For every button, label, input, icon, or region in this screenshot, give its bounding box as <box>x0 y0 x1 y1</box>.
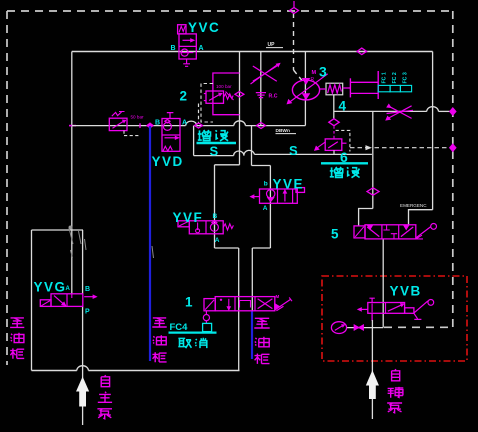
comp2 pilot loop <box>213 73 240 115</box>
wire left rect right edge upper (to YVG B) <box>82 230 84 294</box>
comp2 port ticks <box>204 94 206 101</box>
cylinder body <box>350 82 378 93</box>
svg-text:A: A <box>215 237 220 244</box>
svg-text:2: 2 <box>180 89 188 104</box>
throttle X2 cross <box>387 106 414 119</box>
wire YVG top feed inner <box>71 230 73 294</box>
wire aux pump riser <box>371 320 373 419</box>
valve1 dividers <box>235 297 255 311</box>
wire right bus vertical <box>432 52 434 210</box>
valve YVG pilot box <box>40 300 51 307</box>
wire YVG P drop <box>82 306 84 370</box>
svg-text:YVE: YVE <box>273 176 305 191</box>
valve6 adjust arrow <box>315 142 325 149</box>
svg-text:50 bar: 50 bar <box>131 114 144 119</box>
pump3 top flow triangle <box>303 79 309 84</box>
svg-text:S: S <box>210 144 219 159</box>
valve1 detent stem <box>205 311 207 315</box>
svg-text:A: A <box>199 45 204 52</box>
wire valve5 pilot jog <box>359 209 373 226</box>
switch box FC2 <box>390 85 400 91</box>
wire YVF stub horizontal <box>215 164 240 166</box>
label QUXIAO qu <box>178 338 191 348</box>
valve YVG divider <box>66 294 68 307</box>
throttle X1 cross <box>253 66 277 81</box>
main pump arrow <box>77 378 89 391</box>
valve YVE cell2 arrow <box>284 193 286 202</box>
valve YVD check circle <box>163 122 171 130</box>
valve YVF pilot diagonal <box>179 222 188 226</box>
valve YVC spring zigzag <box>179 26 185 33</box>
valve1 lever tick <box>289 297 292 301</box>
sheet border dashed right <box>452 11 454 327</box>
valve1 detent tick <box>205 321 207 324</box>
wire RC throttle branch <box>260 52 262 126</box>
relief50 drain dashes <box>124 131 139 136</box>
valve YVC flow arrowhead <box>191 39 194 42</box>
comp4 link to pump <box>320 88 326 90</box>
break hump on bus2 over vertical <box>234 121 246 126</box>
svg-text:DBWn: DBWn <box>276 128 290 134</box>
valve6 bottom stub <box>333 150 335 154</box>
label QUXIAO xiao <box>195 338 207 348</box>
break hump on bus2 left of S-box <box>186 121 197 125</box>
label ZHIYOUGUI mid zhi <box>152 318 166 327</box>
svg-text:R: R <box>311 77 315 83</box>
wire pump suction drop <box>304 52 306 126</box>
svg-text:S: S <box>289 143 298 158</box>
wire gauge line <box>347 327 384 329</box>
comp2 adjust arrow <box>226 92 234 101</box>
svg-text:3: 3 <box>319 64 327 80</box>
valve YVD spring <box>163 146 172 151</box>
node diamond comp2 on vertical1 <box>235 92 244 98</box>
valve YVE cell2 arrowhead <box>284 190 287 193</box>
valve5 cell3 triangle <box>404 226 408 230</box>
stub above border node <box>293 1 295 7</box>
valve YVF pilot box <box>178 221 189 227</box>
valve YVC check circle <box>181 49 188 56</box>
wire valve5 pilot feed vertical <box>372 111 374 208</box>
pump3 circle <box>292 80 319 100</box>
gauge circle <box>331 322 346 334</box>
comp4 spring coils <box>328 85 342 93</box>
node dot blue-line tap <box>147 123 153 128</box>
annotation1 text ZENG <box>198 130 211 141</box>
valve YVB divider <box>385 303 387 314</box>
valve6 right tick <box>342 142 347 144</box>
wire main top bus P1 <box>72 51 433 53</box>
valve YVF divider <box>205 221 207 234</box>
valve1 cell3 X <box>258 299 273 309</box>
comp2 valve arrow <box>209 95 220 101</box>
wire left rect left edge <box>31 230 33 371</box>
valve YVF check diamond <box>212 221 217 224</box>
node diamond above valve6 <box>329 119 339 126</box>
annotation S-box left edge <box>193 126 195 156</box>
svg-text:UP: UP <box>268 42 276 48</box>
valve YVE solenoid box <box>296 188 305 193</box>
bridge hump on bottom bus <box>77 366 89 371</box>
annotation1 text SHE <box>216 130 229 141</box>
valve YVB pilot T <box>369 298 374 302</box>
valve YVC cell divider <box>179 45 196 47</box>
valve YVG body <box>51 294 83 307</box>
wire left vertical drop <box>71 52 73 231</box>
svg-text:YVG: YVG <box>34 280 67 295</box>
label ZIZHUBENG zi <box>101 375 109 387</box>
valve5 lever circle <box>431 224 437 230</box>
valve1 cell1 dot <box>220 299 222 301</box>
valve YVB left arrowhead <box>358 308 361 311</box>
node diamond comp2 dashed end <box>195 123 203 128</box>
valve YVD solenoid stem <box>167 113 174 119</box>
wire YVE stub drop <box>251 126 253 166</box>
valve YVG right arrow <box>84 296 93 298</box>
svg-text:B: B <box>171 45 176 52</box>
valve5 cell1 diagonal <box>367 227 379 237</box>
valve1 pilot diagonal <box>205 300 214 310</box>
svg-text:M: M <box>312 70 317 76</box>
label ZHIYOUGUI mid gui <box>152 352 166 362</box>
svg-text:1: 1 <box>185 295 193 310</box>
valve1 cell2 mark <box>240 301 251 308</box>
valve YVD body <box>162 119 180 152</box>
valve YVE check triangle <box>268 198 274 202</box>
label ZIZHUBENG zhu <box>98 392 112 403</box>
aux pump arrow <box>367 371 379 385</box>
svg-text:YVB: YVB <box>390 284 422 299</box>
node tick at bus2 T-junction <box>69 125 76 127</box>
valve6 flow arrow <box>328 142 338 148</box>
label ZHIYOUGUI left gui <box>10 348 24 358</box>
valve YVF check circle <box>210 223 218 231</box>
wire bus2 horizontal segment a <box>72 125 186 127</box>
valve5 cell3 diagonal <box>401 227 413 237</box>
valve1 cell1 arrow <box>228 299 230 308</box>
node diamond on top border <box>290 8 299 14</box>
valve YVB left arrow <box>360 308 368 310</box>
valve YVG cell2 tick <box>71 294 73 298</box>
annotation6 underline <box>321 162 368 164</box>
arrowhead on valve6 pilot <box>366 146 371 150</box>
label ZHIYOUGUI mid you <box>153 335 166 345</box>
throttle X1 arrow <box>251 64 279 84</box>
comp2 spring <box>224 94 234 100</box>
valve YVF spring <box>223 224 233 230</box>
svg-text:A: A <box>263 205 268 212</box>
wire YVF drop <box>214 165 216 248</box>
FC4 underline <box>169 332 217 334</box>
annotation6 text ZENG <box>330 167 343 177</box>
sheet border dashed top <box>7 10 453 12</box>
valve YVG cell1 arrowhead <box>62 302 65 305</box>
valve YVC tank stub <box>183 59 190 66</box>
node diamond on border y111 <box>450 108 456 115</box>
gauge needle head <box>342 325 344 327</box>
wire YVF jog to valve1 <box>215 247 239 249</box>
valve YVE left arrowhead <box>251 195 254 198</box>
svg-text:4: 4 <box>339 99 347 114</box>
break hump over right bus <box>427 107 439 112</box>
valve YVB cell2 arrowhead <box>401 304 404 306</box>
valve5 lever <box>416 227 431 238</box>
svg-text:B: B <box>85 286 90 293</box>
wire YVB port stub magenta <box>371 313 373 321</box>
valve YVD flow arrow <box>165 137 176 139</box>
svg-text:R.C: R.C <box>269 94 278 100</box>
svg-text:5: 5 <box>331 227 339 242</box>
break double hump on S bus <box>234 150 255 155</box>
valve YVE left arrow <box>252 196 260 198</box>
svg-text:A: A <box>66 286 71 292</box>
relief50 body <box>109 118 127 130</box>
node diamond RC joins bus2 <box>257 123 266 129</box>
svg-text:b: b <box>264 180 268 187</box>
sheet border dashed left <box>6 11 8 365</box>
tiny label UP underline <box>266 47 283 49</box>
valve5 lever foot <box>415 235 423 239</box>
pump3 variable arrow <box>289 74 328 103</box>
blue tank line right <box>251 311 253 359</box>
comp2 valve body <box>206 91 224 103</box>
pump3 bottom flow triangle <box>303 94 309 99</box>
valve6 dashed pilot drop <box>333 126 335 139</box>
label ZHIYOUGUI left you <box>11 333 24 343</box>
svg-text:FC 2: FC 2 <box>392 72 398 83</box>
wire S bus left segment <box>194 155 234 157</box>
valve YVB right box <box>405 308 414 314</box>
valve YVF body <box>189 221 223 234</box>
cylinder rod link <box>343 87 351 89</box>
smudge marks <box>69 228 154 258</box>
valve1 body <box>215 297 275 311</box>
svg-text:B: B <box>155 120 160 127</box>
valve5 cell2 T marks <box>383 225 397 239</box>
relief50 bus tick <box>139 123 141 128</box>
wire YVE stub horizontal <box>252 165 271 167</box>
throttle X2 arrowhead b <box>387 105 390 108</box>
label ZIFUBENG fu <box>388 387 404 398</box>
valve YVE body <box>260 189 298 203</box>
svg-text:FC 3: FC 3 <box>403 72 409 83</box>
blue tank line left <box>149 126 151 361</box>
valve1 lever <box>275 299 291 310</box>
valve YVD check diamond <box>165 120 170 123</box>
throttle X2 arrowhead a <box>386 117 390 120</box>
wire comp4 drain drop <box>333 95 335 119</box>
valve YVG right arrowhead <box>93 295 96 298</box>
valve YVF cell1 mark <box>196 223 200 233</box>
label ZIFUBENG zi <box>392 369 400 381</box>
node diamond on top bus <box>357 48 367 55</box>
dashed valve6 pilot line a <box>350 147 366 149</box>
dashed pilot from comp2 box <box>198 104 200 124</box>
tiny label DBW underline <box>276 133 297 135</box>
label ZIZHUBENG beng <box>97 409 112 419</box>
wire valve1 left feed drop <box>238 248 240 371</box>
pump3 variable arrowhead <box>287 100 291 104</box>
dashed pump control diagonal <box>294 70 303 81</box>
svg-text:100 bar: 100 bar <box>216 84 232 89</box>
label ZHIYOUGUI left zhi <box>10 318 24 328</box>
revision area red dashed box <box>322 276 467 361</box>
relief50 arrowhead <box>123 120 126 122</box>
valve YVB cell2 arrow <box>388 305 402 311</box>
svg-text:M: M <box>276 294 280 299</box>
dashed valve6 pilot line b <box>375 147 450 149</box>
wire bus2 horizontal segment b <box>197 125 234 127</box>
comp4 spring box <box>326 83 343 95</box>
node diamond on border y148 <box>450 144 456 151</box>
wire bottom bus a <box>32 370 77 372</box>
svg-text:YVC: YVC <box>188 20 220 35</box>
wire valve5 output to YVB <box>382 239 384 328</box>
throttle X1 arrowhead <box>277 64 280 67</box>
valve YVB cell1 line <box>371 304 373 313</box>
cylinder left plate <box>349 78 351 97</box>
valve YVC flow arrow <box>183 39 192 41</box>
node diamond valve5 pilot line <box>367 188 379 195</box>
svg-text:FC 1: FC 1 <box>382 72 388 83</box>
wire bus2 horizontal segment c <box>245 125 305 127</box>
comp2 dashed frame <box>201 84 213 123</box>
wire left rect top edge <box>32 229 84 231</box>
valve6 body <box>325 139 342 151</box>
shutoff bowtie <box>354 325 363 330</box>
comp2 valve arrowhead <box>219 93 222 95</box>
annotation6 text SHE <box>347 167 360 177</box>
label ZHIYOUGUI right gui <box>255 354 270 364</box>
wire valve1 right feed drop <box>251 248 253 311</box>
svg-text:P: P <box>85 309 90 316</box>
relief50 arrow <box>113 121 124 128</box>
drain symbol waves <box>256 93 266 98</box>
wire comp4 drain branch horiz a <box>334 110 427 112</box>
valve YVC body <box>179 34 196 59</box>
valve1 lever pivot <box>275 304 279 309</box>
valve1 pilot box <box>204 299 215 311</box>
label ZIFUBENG beng <box>387 403 402 413</box>
svg-text:FC4: FC4 <box>170 322 189 333</box>
valve5 pilot box <box>354 226 365 238</box>
label ZHIYOUGUI right you <box>255 337 269 347</box>
FC4 limit box <box>203 323 212 331</box>
dashed box right of valve6 <box>336 130 350 151</box>
svg-text:A: A <box>182 120 187 127</box>
valve5 body <box>365 225 416 239</box>
valve5 dividers <box>382 225 399 239</box>
valve YVC check stem <box>181 52 193 54</box>
wire right bus jog to valve5 <box>409 210 433 225</box>
valve YVB lever <box>414 301 428 320</box>
wire vertical1 from top bus <box>239 52 241 165</box>
valve YVB lever circle <box>428 300 434 306</box>
valve YVD divider <box>162 134 180 136</box>
switch box FC1 <box>378 85 390 91</box>
label ZHIYOUGUI right zhi <box>254 318 269 328</box>
cylinder rod end plate <box>377 71 379 99</box>
valve YVG pilot diagonal <box>41 301 50 306</box>
wire YVE drop <box>269 166 271 249</box>
valve YVC spring box <box>178 25 186 34</box>
svg-text:EMERGENC: EMERGENC <box>400 203 427 208</box>
wire bottom bus b <box>88 370 239 372</box>
valve1 cell1 arrowhead <box>227 307 230 310</box>
valve5 pilot diagonal <box>355 227 364 237</box>
annotation1 underline <box>197 142 237 144</box>
valve6 adjust arrowhead <box>315 147 319 150</box>
valve1 detent circle <box>203 315 209 321</box>
svg-text:YVF: YVF <box>173 210 204 225</box>
valve5 cell1 triangle <box>368 226 372 230</box>
wire S bus right segment <box>254 153 372 155</box>
dashed pump control from border <box>293 13 295 70</box>
gauge needle <box>335 325 343 330</box>
valve YVE dividers <box>278 189 293 203</box>
valve YVE check circle <box>267 190 275 198</box>
valve YVG cell1 arrow <box>54 296 64 305</box>
valve YVB body <box>368 303 405 314</box>
sheet border dashed bottom-right stub <box>384 326 453 328</box>
svg-text:B: B <box>213 213 218 220</box>
relief50 top spring arrow <box>112 112 125 117</box>
wire main pump riser below bus <box>82 371 84 426</box>
valve YVD flow arrowhead <box>175 137 178 140</box>
wire comp4 drain branch horiz b <box>438 110 449 112</box>
switch box FC3 <box>400 85 411 91</box>
svg-text:YVD: YVD <box>152 154 184 169</box>
wire YVE jog to valve1 <box>252 247 270 249</box>
